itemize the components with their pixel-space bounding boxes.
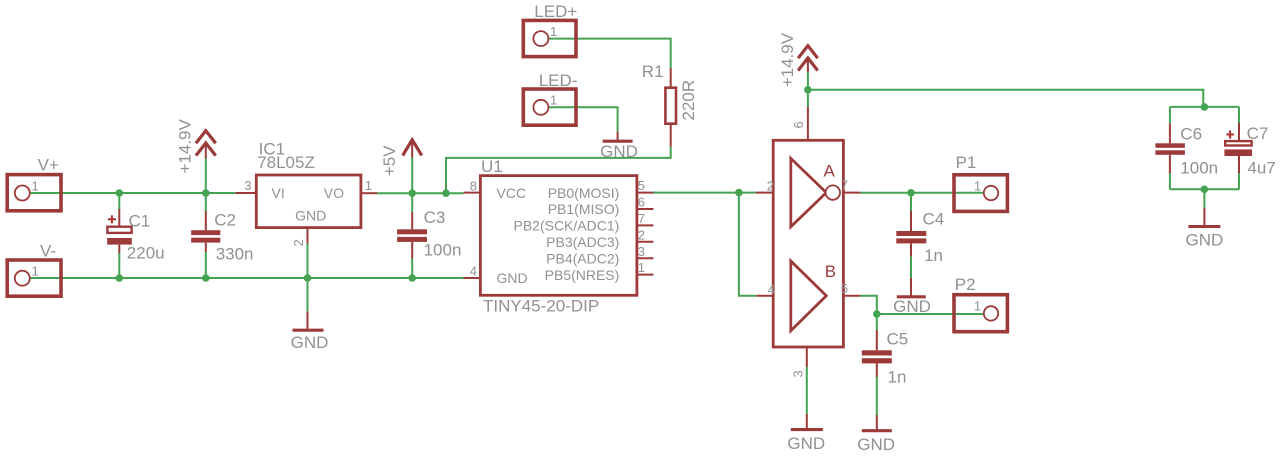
svg-text:TINY45-20-DIP: TINY45-20-DIP xyxy=(483,297,599,316)
buffer IC box xyxy=(756,107,861,367)
svg-text:1: 1 xyxy=(974,178,981,193)
svg-text:GND: GND xyxy=(295,208,326,224)
wire V- rail xyxy=(30,277,464,279)
junction C6 C7 bottom xyxy=(1201,186,1209,194)
wire C4 bottom to GND xyxy=(910,256,912,278)
svg-text:GND: GND xyxy=(497,270,528,286)
wire input A to input B xyxy=(739,193,757,296)
connector V+ xyxy=(7,156,61,211)
wire VO to U1 VCC xyxy=(377,192,464,194)
ground buffer pin 3 xyxy=(787,414,825,453)
wire C1 bottom branch xyxy=(118,253,120,278)
capacitor C5 xyxy=(862,330,908,387)
svg-text:2: 2 xyxy=(291,239,306,246)
wire +14.9V branch xyxy=(205,158,207,193)
wire C3 bottom branch xyxy=(411,259,413,279)
ground C5 xyxy=(857,415,895,454)
svg-text:8: 8 xyxy=(470,178,477,193)
svg-text:R1: R1 xyxy=(642,62,664,81)
svg-text:7: 7 xyxy=(638,211,645,226)
ground C4 xyxy=(893,278,931,316)
svg-text:3: 3 xyxy=(244,178,251,193)
capacitor C2 xyxy=(191,210,253,263)
svg-text:C4: C4 xyxy=(923,210,945,229)
svg-text:1: 1 xyxy=(32,264,39,279)
junction V- IC1 GND xyxy=(304,274,312,282)
buffer channel B xyxy=(791,261,836,331)
ground LED- xyxy=(600,132,638,162)
svg-text:B: B xyxy=(825,262,836,281)
svg-text:GND: GND xyxy=(600,142,638,161)
svg-text:7: 7 xyxy=(841,178,848,193)
svg-text:PB5(NRES): PB5(NRES) xyxy=(545,267,620,283)
svg-text:1n: 1n xyxy=(888,367,907,386)
wire LED- to GND xyxy=(548,107,617,131)
wire C6 C7 bottom rail xyxy=(1170,188,1239,190)
junction output B C5 xyxy=(873,310,881,318)
svg-text:2: 2 xyxy=(767,178,774,193)
svg-text:C3: C3 xyxy=(424,208,446,227)
svg-text:LED+: LED+ xyxy=(534,2,577,21)
junction C6 C7 top xyxy=(1201,103,1209,111)
svg-text:+14.9V: +14.9V xyxy=(778,32,797,87)
svg-text:VO: VO xyxy=(324,185,344,201)
junction +5V C3 xyxy=(408,189,416,197)
voltage regulator IC1 78L05Z xyxy=(235,140,377,247)
svg-text:6: 6 xyxy=(638,195,645,210)
capacitor C3 xyxy=(397,208,461,260)
wire C6 C7 top rail xyxy=(1170,106,1239,108)
wire C2 top branch xyxy=(205,193,207,211)
junction V+ C1 xyxy=(116,189,124,197)
buffer channel A xyxy=(791,158,840,226)
svg-text:P1: P1 xyxy=(956,153,977,172)
svg-text:A: A xyxy=(824,161,836,180)
svg-text:GND: GND xyxy=(787,434,825,453)
wire buffer pin 3 to GND xyxy=(806,367,808,414)
svg-text:2: 2 xyxy=(638,227,645,242)
wire +14.9V to buffer pin 6 xyxy=(807,72,809,107)
connector P2 xyxy=(954,275,1007,332)
wire C6 top lead xyxy=(1169,107,1171,124)
supply +14.9V left xyxy=(175,118,215,173)
wire +5V branch xyxy=(411,158,413,194)
wire U1 PB0 to buffer input A xyxy=(654,192,756,194)
svg-text:VI: VI xyxy=(272,185,285,201)
svg-text:1: 1 xyxy=(638,260,645,275)
buffer pin numbers xyxy=(767,121,848,377)
svg-text:4: 4 xyxy=(768,282,775,297)
svg-text:C2: C2 xyxy=(214,210,236,229)
resistor R1 220R xyxy=(642,62,698,147)
svg-text:PB4(ADC2): PB4(ADC2) xyxy=(546,250,619,266)
svg-text:GND: GND xyxy=(857,435,895,454)
junction input A xyxy=(735,189,743,197)
svg-text:C7: C7 xyxy=(1247,124,1269,143)
junction V- C2 xyxy=(202,274,210,282)
wire output A to P1 xyxy=(861,192,985,194)
svg-text:PB1(MISO): PB1(MISO) xyxy=(548,201,620,217)
junction V- C3 xyxy=(408,274,416,282)
svg-text:100n: 100n xyxy=(424,241,462,260)
svg-text:VCC: VCC xyxy=(497,185,527,201)
svg-text:C1: C1 xyxy=(129,212,151,231)
capacitor C7 xyxy=(1224,123,1275,177)
supply +14.9V top xyxy=(778,32,818,87)
wire C5 bottom to GND xyxy=(876,377,878,415)
svg-text:4u7: 4u7 xyxy=(1247,158,1275,177)
svg-text:PB0(MOSI): PB0(MOSI) xyxy=(548,185,620,201)
wire C5 top branch xyxy=(876,314,878,330)
wire C1 top branch xyxy=(118,193,120,209)
svg-text:V+: V+ xyxy=(38,156,59,175)
capacitor C4 xyxy=(896,210,944,265)
wire R1 bottom to +5V net xyxy=(446,147,671,193)
svg-text:PB2(SCK/ADC1): PB2(SCK/ADC1) xyxy=(513,218,619,234)
svg-text:V-: V- xyxy=(40,242,56,261)
svg-text:5: 5 xyxy=(841,281,848,296)
svg-text:6: 6 xyxy=(791,121,806,128)
svg-text:GND: GND xyxy=(291,333,329,352)
svg-text:78L05Z: 78L05Z xyxy=(257,153,315,172)
svg-text:P2: P2 xyxy=(955,275,976,294)
svg-text:GND: GND xyxy=(1186,231,1224,250)
connector P1 xyxy=(954,153,1007,211)
svg-text:GND: GND xyxy=(893,297,931,316)
capacitor C1 xyxy=(107,209,164,262)
connector LED+ xyxy=(523,2,577,57)
svg-text:1: 1 xyxy=(365,178,372,193)
junction +14.9V top xyxy=(804,86,812,94)
svg-text:3: 3 xyxy=(638,244,645,259)
capacitor C6 xyxy=(1155,123,1218,177)
svg-text:330n: 330n xyxy=(216,245,254,264)
wire C6 bottom lead xyxy=(1169,173,1171,189)
svg-text:220u: 220u xyxy=(127,243,165,262)
svg-text:100n: 100n xyxy=(1180,158,1218,177)
wire LED+ to R1 top xyxy=(548,39,671,68)
svg-text:+5V: +5V xyxy=(380,145,399,176)
svg-text:1: 1 xyxy=(550,93,557,108)
junction V+ C2 xyxy=(202,189,210,197)
svg-text:1: 1 xyxy=(32,178,39,193)
svg-text:1: 1 xyxy=(974,299,981,314)
junction R1 net xyxy=(442,189,450,197)
svg-text:U1: U1 xyxy=(481,157,503,176)
wire C2 bottom branch xyxy=(205,252,207,278)
svg-text:+14.9V: +14.9V xyxy=(175,118,194,173)
svg-text:LED-: LED- xyxy=(539,71,578,90)
connector LED- xyxy=(523,71,577,125)
wire V+ rail xyxy=(30,192,235,194)
svg-text:5: 5 xyxy=(638,178,645,193)
wire IC1 GND pin to V- rail and GND xyxy=(307,244,309,312)
connector V- xyxy=(7,242,61,297)
svg-text:C5: C5 xyxy=(887,330,909,349)
supply +5V xyxy=(380,140,422,177)
wire top supply rail to C6 C7 xyxy=(808,90,1203,107)
junction V- C1 xyxy=(116,274,124,282)
wire C7 bottom lead xyxy=(1238,173,1240,189)
svg-text:1n: 1n xyxy=(924,246,943,265)
svg-text:4: 4 xyxy=(470,264,477,279)
wire C7 top lead xyxy=(1238,107,1240,123)
wire C3 top branch xyxy=(411,193,413,212)
ground C6 C7 xyxy=(1186,208,1224,250)
svg-text:1: 1 xyxy=(550,24,557,39)
ground IC1 xyxy=(291,311,329,352)
junction output A C4 xyxy=(907,189,915,197)
wire output B to P2 xyxy=(861,296,985,314)
svg-text:PB3(ADC3): PB3(ADC3) xyxy=(546,234,619,250)
svg-text:220R: 220R xyxy=(679,80,698,121)
svg-text:C6: C6 xyxy=(1180,125,1202,144)
IC U1 TINY45-20-DIP xyxy=(464,157,654,316)
wire C6 C7 to GND xyxy=(1203,189,1205,207)
svg-text:3: 3 xyxy=(791,370,806,377)
wire C4 top branch xyxy=(910,193,912,211)
